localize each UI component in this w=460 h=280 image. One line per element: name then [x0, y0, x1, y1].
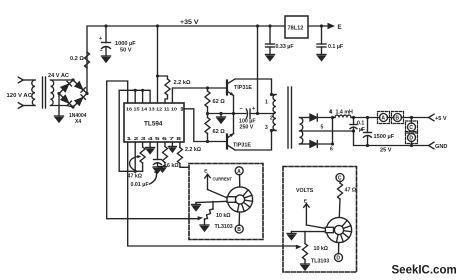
wire B to +5V	[401, 117, 428, 119]
node emitter junction	[232, 112, 235, 115]
svg-text:0.1: 0.1	[357, 121, 364, 127]
wire joining diode outputs	[332, 118, 334, 145]
svg-text:16 15 14 13 12 11 10: 16 15 14 13 12 11 10	[126, 106, 177, 112]
svg-text:0.33 µF: 0.33 µF	[276, 44, 295, 50]
svg-text:9: 9	[181, 107, 184, 113]
node wiper	[134, 170, 137, 173]
node 62 bottom	[206, 140, 209, 143]
svg-text:−: −	[100, 49, 103, 55]
node 0.1uF tap	[320, 24, 323, 27]
capacitor 0.01uF pin5	[157, 142, 159, 160]
wire secondary to bridge top	[51, 79, 74, 81]
ground 5k	[159, 165, 167, 172]
svg-text:B: B	[395, 116, 399, 122]
meter M1	[227, 187, 252, 212]
wire secondary to bridge bottom	[51, 106, 74, 108]
capacitor 1500uF 25V	[367, 118, 369, 133]
svg-text:10 kΩ: 10 kΩ	[216, 213, 231, 219]
meter M2	[326, 217, 351, 242]
ground current box	[192, 203, 201, 211]
potentiometer 10k current	[205, 209, 214, 219]
ground 0.01uF	[153, 167, 162, 173]
node gnd tap	[219, 112, 222, 115]
wire pin2 down to wiper node	[134, 142, 136, 171]
resistor 5k pin6	[164, 142, 166, 147]
svg-text:0.1 µF: 0.1 µF	[328, 44, 344, 50]
svg-text:78L12: 78L12	[288, 26, 304, 32]
node 1500uF bottom	[366, 144, 369, 147]
capacitor C1 1000uF 50V	[105, 26, 107, 43]
node bridge right	[85, 92, 88, 95]
node 0.1uF bottom / pin5	[352, 129, 355, 132]
node bus pin15	[134, 89, 137, 92]
ground pin7	[168, 142, 176, 152]
terminal C meter	[336, 174, 344, 182]
diode rectifier bottom	[310, 141, 317, 148]
wire middle node	[208, 113, 247, 115]
diode top-left	[61, 84, 68, 91]
wire rail to center tap	[257, 26, 259, 114]
resistor 62 ohm lower	[207, 114, 209, 118]
node rail-0.33uF	[268, 24, 271, 27]
svg-text:SeekIC.com: SeekIC.com	[392, 265, 457, 277]
AC plug terminal bottom	[18, 103, 23, 109]
svg-text:2.2 kΩ: 2.2 kΩ	[185, 147, 202, 153]
node pin12 wire / 2.2k tap	[156, 74, 159, 77]
svg-text:D: D	[336, 256, 340, 262]
wire pin5 down to gnd line	[354, 131, 429, 146]
svg-text:10 kΩ: 10 kΩ	[314, 246, 329, 252]
svg-text:−: −	[240, 107, 243, 113]
node inductor out	[352, 116, 355, 119]
node gnd tap	[410, 144, 413, 147]
svg-text:+35 V: +35 V	[180, 19, 199, 26]
svg-text:C: C	[409, 125, 413, 131]
terminal B	[387, 117, 394, 119]
node bridge top	[71, 78, 74, 81]
wire pin1 long loop to VOLTS pot	[128, 142, 298, 246]
svg-text:2: 2	[270, 116, 273, 122]
svg-text:E: E	[338, 25, 342, 31]
node xfmr pin3	[270, 129, 273, 132]
wire plug to transformer	[23, 105, 35, 107]
node 62 mid	[206, 112, 209, 115]
resistor 47 ohm	[339, 181, 341, 183]
wire +35V rail	[87, 26, 285, 94]
ground bridge	[55, 116, 64, 122]
svg-text:6 kΩ: 6 kΩ	[167, 163, 179, 169]
svg-text:0.2 Ω: 0.2 Ω	[70, 56, 84, 62]
resistor 62 ohm upper	[207, 88, 209, 91]
node +5V tap	[410, 116, 413, 119]
ground 0.33uF	[266, 55, 275, 61]
svg-text:1000 µF: 1000 µF	[115, 41, 136, 47]
transistor Q2 TIP31E bottom	[226, 135, 228, 149]
ground 0.1uF reg	[317, 55, 326, 61]
wire secondary bottom	[300, 143, 311, 145]
svg-text:TL3103: TL3103	[311, 259, 329, 265]
dashed box CURRENT meter	[189, 164, 263, 240]
arrowhead to current pot	[198, 216, 204, 220]
svg-text:TIP31E: TIP31E	[234, 85, 252, 91]
output arrow GND	[429, 142, 434, 149]
svg-text:62 Ω: 62 Ω	[213, 129, 226, 135]
wire rail to pin 12	[157, 26, 159, 103]
terminal A	[380, 114, 388, 122]
svg-text:VOLTS: VOLTS	[296, 188, 314, 194]
terminal C	[411, 118, 413, 124]
transformer T2 core	[287, 87, 289, 148]
svg-text:250 V: 250 V	[240, 125, 254, 131]
svg-text:1500 µF: 1500 µF	[374, 134, 395, 140]
node centertap drop	[256, 112, 259, 115]
transformer T2 primary	[272, 94, 277, 96]
dashed box VOLTS meter	[283, 167, 357, 273]
svg-text:62 Ω: 62 Ω	[213, 99, 226, 105]
capacitor 0.1uF output	[353, 118, 355, 125]
svg-text:3: 3	[265, 125, 268, 131]
resistor R 2.2k (upper)	[158, 76, 168, 79]
node xfmr pin1	[270, 93, 273, 96]
svg-text:1.4 mH: 1.4 mH	[336, 110, 354, 116]
diode rectifier top	[310, 114, 317, 121]
diode bottom-right	[75, 98, 82, 105]
svg-text:5: 5	[321, 125, 324, 131]
svg-text:TL594: TL594	[144, 121, 163, 128]
wire bus pins 15,14,13	[119, 90, 150, 171]
svg-text:6: 6	[330, 147, 333, 153]
wire pin16 long loop to CURRENT pot	[107, 81, 199, 219]
wire pin9 to bottom base	[184, 109, 227, 142]
svg-text:+: +	[252, 106, 255, 112]
transformer T2 secondary	[300, 118, 303, 145]
bridge rectifier D1-D4 1N4004	[59, 80, 87, 107]
svg-text:TIP31E: TIP31E	[233, 143, 251, 149]
IC U1 TL594	[124, 103, 184, 142]
svg-text:B: B	[237, 227, 241, 233]
svg-text:A: A	[381, 116, 385, 122]
terminal D	[408, 134, 416, 142]
wire bridge left to ground	[58, 94, 60, 117]
diode top-right	[75, 82, 82, 89]
diode bottom-left	[61, 95, 68, 102]
node rail-centertap	[256, 24, 259, 27]
svg-text:1 2 3 4 5 6 7 8: 1 2 3 4 5 6 7 8	[127, 136, 182, 142]
AC plug terminal top	[18, 77, 23, 83]
arrowhead to volts pot	[296, 245, 302, 249]
resistor 0.2 ohm	[85, 52, 90, 68]
node bus pin14	[141, 89, 144, 92]
svg-text:TL3103: TL3103	[215, 224, 233, 230]
svg-text:24 V AC: 24 V AC	[48, 73, 69, 79]
node bridge bottom	[71, 105, 74, 108]
wire 78L12 output E	[308, 25, 327, 27]
svg-text:47 kΩ: 47 kΩ	[128, 174, 143, 180]
wire plug to transformer	[23, 79, 35, 81]
node diode join bottom	[331, 142, 334, 145]
inductor L1 1.4mH	[335, 115, 351, 117]
transistor Q1 TIP31E top	[226, 81, 228, 95]
svg-text:+: +	[99, 36, 102, 42]
node rail-pin12	[156, 24, 159, 27]
potentiometer 10k volts	[304, 231, 306, 243]
terminal A meter	[235, 167, 243, 175]
ground C1	[102, 56, 111, 62]
svg-text:+5 V: +5 V	[435, 116, 447, 122]
transformer T1 secondary	[51, 80, 54, 106]
node 62 top	[206, 86, 209, 89]
potentiometer 47k	[142, 142, 144, 147]
output arrow +5V	[429, 114, 434, 121]
capacitor 0.33uF	[269, 26, 271, 44]
svg-text:120 V AC: 120 V AC	[7, 93, 33, 99]
svg-text:2.2 kΩ: 2.2 kΩ	[174, 80, 191, 86]
resistor 2.2k pin8	[179, 142, 181, 148]
svg-text:CURRENT: CURRENT	[213, 177, 233, 183]
node bridge left	[57, 92, 60, 95]
ground mid node	[217, 114, 226, 124]
regulator 78L12	[285, 16, 308, 38]
terminal D meter	[338, 243, 340, 254]
wire secondary mid (pin5)	[300, 130, 354, 132]
capacitor 0.1uF reg	[321, 26, 323, 44]
svg-text:25 V: 25 V	[380, 148, 392, 154]
capacitor 100uF 250V	[246, 109, 247, 119]
svg-text:50 V: 50 V	[120, 48, 132, 54]
node 1500uF top	[366, 116, 369, 119]
wire secondary top	[300, 117, 311, 119]
node rail-1000uF	[104, 24, 107, 27]
svg-text:1: 1	[265, 100, 268, 106]
svg-text:0.01 µF: 0.01 µF	[131, 182, 150, 188]
transformer T1 core	[42, 77, 44, 108]
svg-text:GND: GND	[435, 144, 447, 150]
transformer T1 primary	[32, 80, 35, 106]
terminal B meter	[238, 212, 240, 225]
node diode join top	[331, 116, 334, 119]
svg-text:4: 4	[330, 110, 333, 116]
svg-text:47 Ω: 47 Ω	[345, 188, 357, 194]
ground pin4	[146, 142, 155, 154]
svg-text:+: +	[360, 127, 363, 133]
ground volts box	[287, 232, 296, 240]
wire pin10 to top base	[172, 88, 226, 103]
svg-text:X4: X4	[75, 119, 81, 125]
